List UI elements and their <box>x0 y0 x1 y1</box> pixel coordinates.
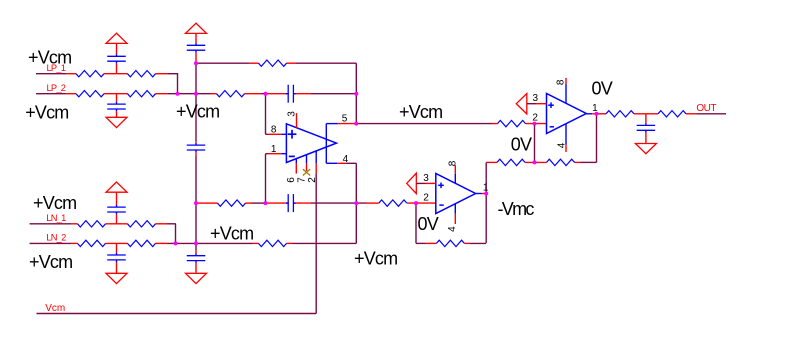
svg-text:+Vcm: +Vcm <box>29 252 72 272</box>
svg-text:3: 3 <box>533 93 539 104</box>
svg-text:-Vmc: -Vmc <box>498 199 535 219</box>
svg-text:6: 6 <box>286 177 297 183</box>
svg-text:LP_1: LP_1 <box>47 63 66 73</box>
svg-text:3: 3 <box>423 173 429 184</box>
svg-text:5: 5 <box>342 113 348 124</box>
svg-text:0V: 0V <box>418 214 439 234</box>
svg-text:0V: 0V <box>592 79 613 99</box>
svg-text:Vcm: Vcm <box>45 303 65 314</box>
svg-text:4: 4 <box>343 154 349 165</box>
svg-text:LP_2: LP_2 <box>47 83 66 93</box>
svg-text:4: 4 <box>447 226 458 232</box>
svg-text:0V: 0V <box>511 135 532 155</box>
svg-text:8: 8 <box>447 160 458 166</box>
svg-text:+Vcm: +Vcm <box>25 102 68 122</box>
svg-text:4: 4 <box>557 142 568 148</box>
svg-text:+Vcm: +Vcm <box>399 102 442 122</box>
svg-text:2: 2 <box>423 193 429 204</box>
svg-text:+Vcm: +Vcm <box>354 249 397 269</box>
svg-text:LN_2: LN_2 <box>46 233 66 243</box>
svg-text:8: 8 <box>556 79 567 85</box>
svg-text:+Vcm: +Vcm <box>33 193 76 213</box>
svg-text:OUT: OUT <box>696 103 716 114</box>
svg-text:LN_1: LN_1 <box>46 213 66 223</box>
svg-text:8: 8 <box>271 124 277 135</box>
svg-text:3: 3 <box>286 111 297 117</box>
svg-text:+Vcm: +Vcm <box>210 224 253 244</box>
svg-text:+Vcm: +Vcm <box>176 102 219 122</box>
svg-text:2: 2 <box>307 177 318 183</box>
svg-text:1: 1 <box>271 144 277 155</box>
svg-text:2: 2 <box>532 112 538 123</box>
